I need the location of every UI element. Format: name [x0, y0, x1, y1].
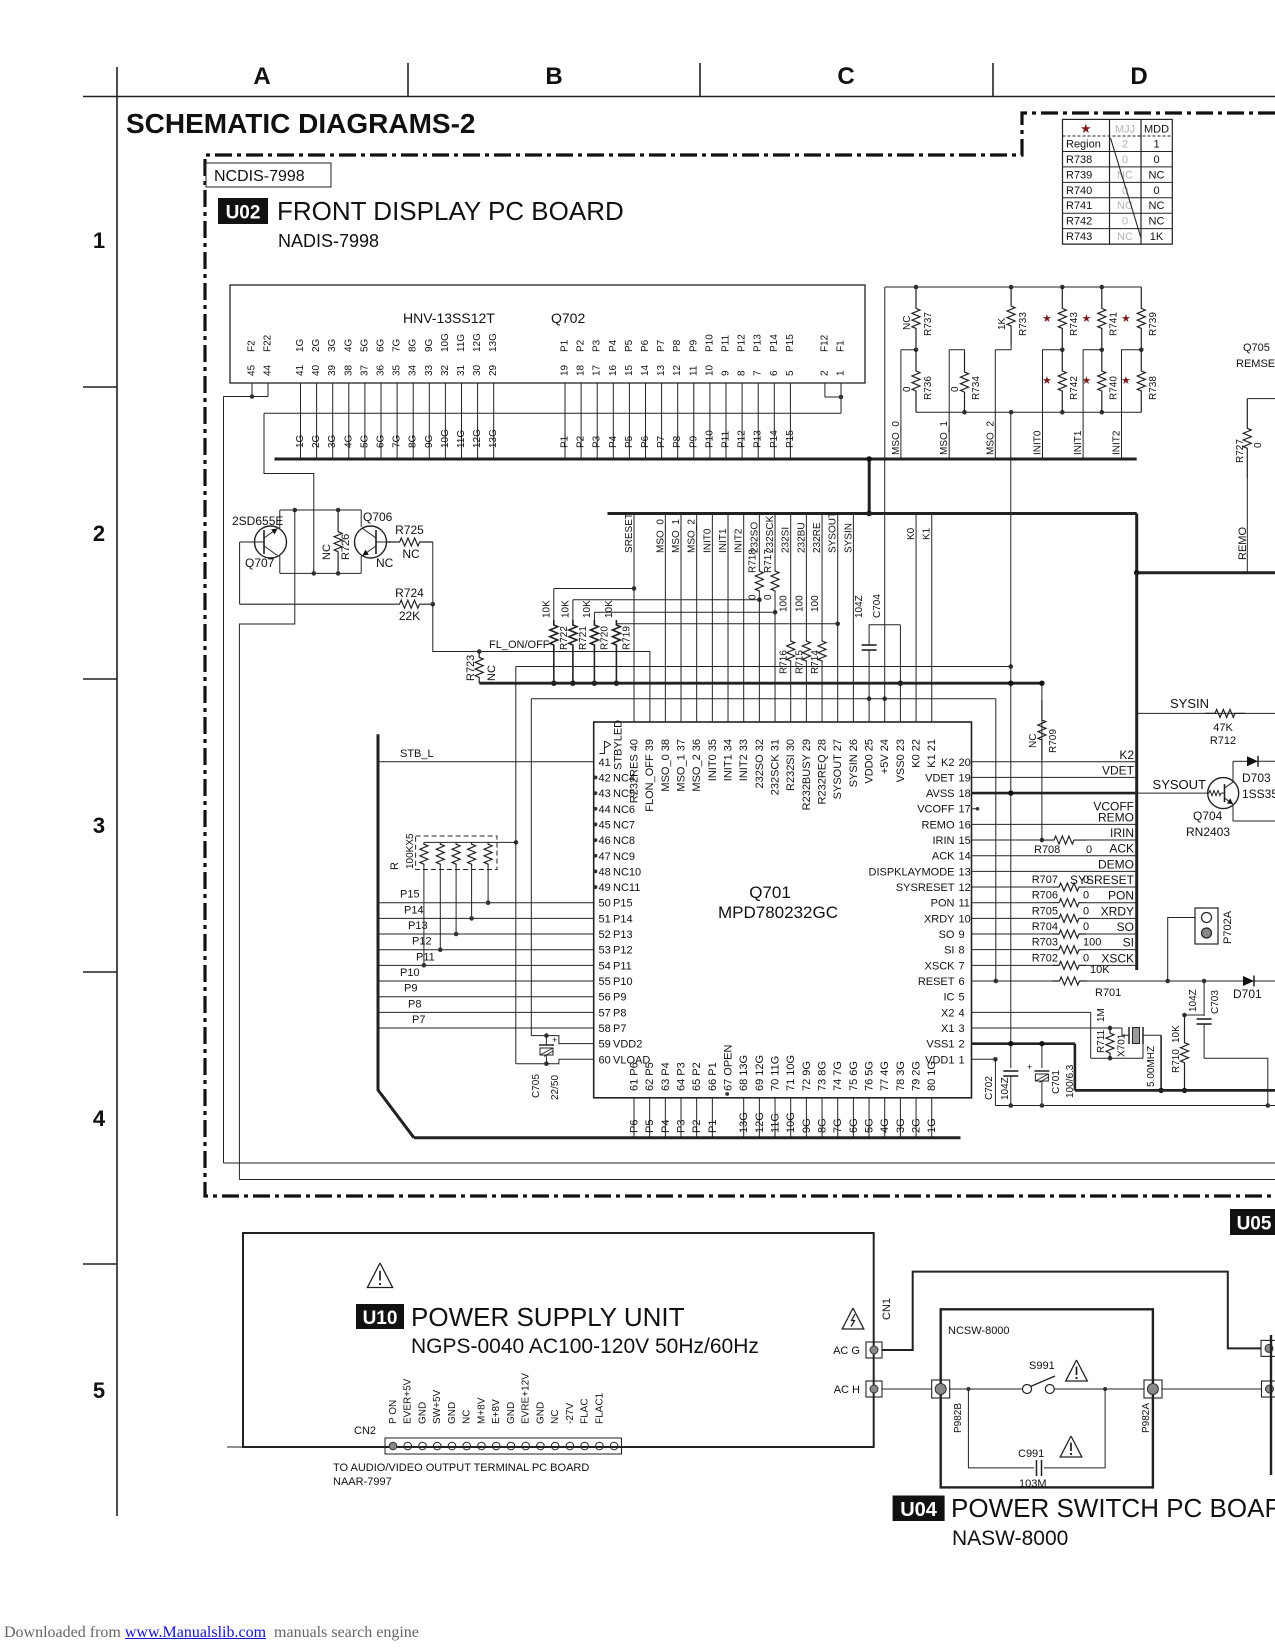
svg-text:15: 15: [959, 835, 971, 847]
svg-text:38: 38: [343, 364, 354, 376]
net label SYSIN and resistor R712 47K: [1137, 696, 1275, 747]
column tick B|C: [699, 63, 701, 97]
wire: F2 net long left drop: [223, 397, 225, 1164]
svg-text:13G: 13G: [488, 429, 499, 448]
capacitor C702 104Z: [984, 1044, 1018, 1108]
svg-text:FL_ON/OFF: FL_ON/OFF: [489, 639, 550, 651]
svg-text:INIT0 35: INIT0 35: [707, 739, 719, 781]
resistor R743 (star): [1042, 287, 1080, 352]
svg-text:-27V: -27V: [565, 1403, 576, 1424]
crystal X701 5.00MHZ with R711 1M: [972, 1008, 1164, 1093]
wire: VDET pin19 to bus: [972, 776, 1138, 778]
svg-text:6G: 6G: [376, 338, 387, 352]
warning triangle (CN1, lightning): [842, 1308, 864, 1329]
connector CN2 strip: [354, 1373, 622, 1454]
svg-text:SO: SO: [939, 929, 955, 941]
svg-text:R702: R702: [1032, 952, 1058, 964]
svg-text:FLAC: FLAC: [580, 1398, 591, 1424]
svg-text:1: 1: [93, 228, 105, 253]
svg-text:GND: GND: [506, 1402, 517, 1424]
svg-text:NC: NC: [1117, 169, 1133, 181]
svg-text:104Z: 104Z: [854, 595, 865, 618]
svg-text:P8: P8: [672, 435, 683, 448]
svg-text:ACK: ACK: [932, 851, 955, 863]
svg-text:U10: U10: [363, 1308, 398, 1329]
junction: C991 left: [966, 1387, 970, 1391]
svg-text:232SO 32: 232SO 32: [754, 739, 766, 789]
svg-text:7G: 7G: [832, 1118, 844, 1133]
svg-text:4: 4: [959, 1007, 965, 1019]
svg-text:49: 49: [599, 882, 611, 894]
svg-text:11G: 11G: [456, 430, 467, 448]
svg-text:P6: P6: [629, 1120, 641, 1133]
wire: REMO vertical to bus: [1246, 478, 1248, 573]
svg-text:54: 54: [599, 960, 611, 972]
svg-text:Q707: Q707: [245, 556, 275, 570]
svg-text:P14: P14: [613, 913, 633, 925]
svg-text:40: 40: [311, 364, 322, 376]
capacitor C701 100/6.3 electrolytic: [1027, 1044, 1076, 1108]
power supply unit U10 outline: [243, 1233, 874, 1447]
svg-text:53: 53: [599, 945, 611, 957]
svg-text:232SCK: 232SCK: [765, 515, 776, 553]
svg-text:0: 0: [1083, 890, 1089, 902]
svg-text:0: 0: [763, 594, 774, 600]
svg-text:67 OPEN: 67 OPEN: [723, 1044, 735, 1091]
svg-text:P7: P7: [412, 1014, 425, 1026]
IC Q701 pin67 OPEN dot: [725, 1092, 729, 1096]
junction: C991 right: [1103, 1387, 1107, 1391]
svg-text:4G: 4G: [343, 338, 354, 352]
svg-text:9G: 9G: [801, 1118, 813, 1133]
svg-text:69 12G: 69 12G: [754, 1055, 766, 1091]
svg-text:6G: 6G: [376, 434, 387, 448]
net label STB_L and wire: [378, 761, 594, 763]
svg-text:MSO_0: MSO_0: [655, 519, 666, 553]
svg-text:5.00MHZ: 5.00MHZ: [1146, 1046, 1157, 1087]
bus: right elbow of bus B down and right (REMO net): [1135, 514, 1138, 573]
svg-text:0: 0: [1122, 216, 1128, 228]
svg-text:5: 5: [785, 370, 796, 376]
svg-text:CN2: CN2: [354, 1425, 376, 1437]
svg-text:R742: R742: [1069, 376, 1080, 400]
svg-text:SYSRESET: SYSRESET: [1070, 873, 1135, 887]
wire: MSO_1 vertical: [948, 350, 950, 459]
wire: VSS1 pin2 thick ground route: [972, 1041, 1075, 1090]
wire: VDD bottom rail: [995, 1105, 1275, 1107]
svg-text:SCHEMATIC DIAGRAMS-2: SCHEMATIC DIAGRAMS-2: [126, 108, 475, 139]
svg-text:R736: R736: [923, 376, 934, 400]
svg-text:R716: R716: [779, 650, 790, 674]
svg-text:0: 0: [1253, 442, 1264, 448]
svg-text:52: 52: [599, 929, 611, 941]
svg-text:R717: R717: [763, 549, 774, 573]
svg-text:70 11G: 70 11G: [770, 1056, 782, 1091]
svg-text:1K: 1K: [1150, 231, 1164, 243]
svg-text:R721: R721: [578, 626, 589, 650]
svg-text:DEMO: DEMO: [1098, 857, 1134, 871]
column tick A|B: [407, 63, 409, 97]
terminal pad right (AC G, cut): [1261, 1340, 1275, 1356]
IC Q701 NC pin dots (42-49): [594, 776, 598, 889]
wires: IC bottom pins to ground bus D: [629, 1098, 939, 1138]
svg-text:0: 0: [1086, 844, 1092, 856]
svg-text:0: 0: [1153, 154, 1159, 166]
wire: VDD2 pin59 jog: [546, 1036, 593, 1044]
svg-text:VDD2: VDD2: [613, 1039, 642, 1051]
svg-text:45: 45: [599, 819, 611, 831]
svg-text:1K: 1K: [997, 317, 1008, 330]
svg-text:10K: 10K: [604, 600, 615, 618]
svg-text:78 3G: 78 3G: [895, 1061, 907, 1091]
svg-text:17: 17: [592, 364, 603, 376]
IC Q701 top pin labels: [629, 739, 939, 812]
warning triangle (S991): [1066, 1360, 1088, 1381]
diode D701: [1233, 976, 1262, 1002]
svg-text:R704: R704: [1032, 921, 1058, 933]
svg-text:R718: R718: [747, 549, 758, 573]
svg-text:232RE: 232RE: [812, 522, 823, 553]
svg-text:P4: P4: [608, 435, 619, 448]
bus: +5V horizontal bus A: [275, 458, 1137, 461]
junction: +5V at VDD rail: [882, 696, 887, 701]
block id U04: [893, 1496, 945, 1522]
svg-text:100: 100: [810, 595, 821, 612]
svg-text:P7: P7: [656, 339, 667, 352]
svg-text:P13: P13: [753, 334, 764, 352]
svg-text:P11: P11: [721, 335, 732, 352]
svg-text:R737: R737: [923, 312, 934, 336]
svg-text:F12: F12: [819, 334, 830, 352]
block id U02: [218, 198, 268, 224]
option table (star/MJJ/MDD): [1063, 119, 1173, 244]
svg-text:VDET: VDET: [925, 772, 955, 784]
svg-text:MSO_0: MSO_0: [891, 421, 902, 455]
wire: P982B to switch: [950, 1388, 1023, 1390]
svg-text:R743: R743: [1069, 312, 1080, 336]
wire: filament rail (F net): [264, 412, 841, 414]
svg-text:P13: P13: [753, 430, 764, 448]
svg-text:1: 1: [1153, 138, 1159, 150]
svg-text:R740: R740: [1066, 185, 1092, 197]
svg-text:46: 46: [599, 835, 611, 847]
resistor R722 10K pull-up: [541, 586, 636, 686]
svg-text:A: A: [253, 63, 270, 90]
resistor R716 100 (in 232SI line): [779, 595, 795, 674]
svg-text:XSCK: XSCK: [925, 960, 956, 972]
wire: VLOAD pin60 jog: [546, 1059, 593, 1063]
resistor R704 0 (in SO line): [972, 920, 1138, 938]
svg-text:SYSOUT: SYSOUT: [828, 512, 839, 553]
svg-text:P11: P11: [416, 951, 435, 963]
svg-text:P9: P9: [688, 435, 699, 448]
wire: AC H to P982B: [882, 1388, 932, 1390]
wire: C705 feed rail down (from rail 666): [515, 667, 517, 1064]
wire: thick link bus A to bus B: [868, 459, 871, 514]
resistor R703 100 (in SI line): [972, 936, 1138, 954]
svg-text:0: 0: [1083, 952, 1089, 964]
svg-text:VCOFF: VCOFF: [917, 804, 955, 816]
svg-text:VSS0 23: VSS0 23: [895, 739, 907, 782]
junction: emitter rail / filament: [312, 571, 317, 576]
wire: DEMO pin13 to bus: [972, 870, 1138, 872]
svg-text:VDET: VDET: [1102, 763, 1135, 777]
svg-text:R724: R724: [395, 586, 424, 600]
svg-text:RESET: RESET: [918, 976, 955, 988]
svg-text:INIT1: INIT1: [1073, 430, 1084, 455]
svg-text:P982A: P982A: [1141, 1403, 1152, 1433]
svg-text:8G: 8G: [817, 1118, 829, 1133]
svg-text:K2: K2: [1119, 748, 1134, 762]
wire: emitter rail of Q707/Q706: [280, 572, 361, 574]
svg-text:22K: 22K: [399, 609, 420, 623]
svg-text:F22: F22: [263, 334, 274, 352]
IC Q701 MPD780232GC body: [594, 722, 972, 1098]
svg-text:INIT2 33: INIT2 33: [738, 739, 750, 781]
svg-text:80 1G: 80 1G: [926, 1061, 938, 1091]
svg-text:2G: 2G: [311, 338, 322, 352]
svg-text:100KX5: 100KX5: [405, 833, 416, 869]
svg-text:64 P3: 64 P3: [676, 1062, 688, 1091]
svg-text:2G: 2G: [911, 1118, 923, 1133]
svg-text:AC G: AC G: [833, 1345, 860, 1357]
svg-text:2G: 2G: [311, 434, 322, 448]
svg-text:P8: P8: [613, 1007, 626, 1019]
svg-text:SYSRESET: SYSRESET: [896, 882, 955, 894]
svg-text:7: 7: [959, 960, 965, 972]
wire: INIT1 vertical: [1083, 350, 1102, 459]
resistor R709 NC (from ground bus to IRIN): [1028, 681, 1059, 841]
svg-text:3: 3: [959, 1023, 965, 1035]
svg-text:12G: 12G: [472, 429, 483, 448]
svg-text:X2: X2: [941, 1007, 954, 1019]
wire: Q707 base to R724: [239, 542, 241, 604]
svg-text:C702: C702: [984, 1076, 995, 1100]
wire: REMO pin16 to bus: [972, 823, 1138, 825]
svg-text:P5: P5: [624, 339, 635, 352]
svg-text:P1: P1: [560, 339, 571, 352]
wire: VDD rail (VDD0/+5V): [531, 698, 996, 700]
svg-text:SYSOUT 27: SYSOUT 27: [832, 739, 844, 799]
wire: VSS0 pin23 riser: [899, 625, 901, 722]
svg-text:73 8G: 73 8G: [817, 1061, 829, 1091]
svg-text:★: ★: [1080, 121, 1092, 136]
svg-text:F1: F1: [836, 340, 847, 352]
svg-text:P10: P10: [400, 967, 420, 979]
svg-text:U04: U04: [900, 1499, 938, 1521]
svg-text:4: 4: [93, 1106, 106, 1131]
power switch board NCSW-8000 outline: [941, 1309, 1153, 1487]
bus: right vertical signal bus: [1135, 573, 1138, 970]
svg-text:P12: P12: [613, 945, 633, 957]
svg-text:C701: C701: [1051, 1070, 1062, 1094]
svg-text:M+8V: M+8V: [476, 1397, 487, 1424]
svg-text:K1 21: K1 21: [926, 739, 938, 768]
svg-text:33: 33: [424, 364, 435, 376]
svg-text:Q701: Q701: [749, 883, 791, 902]
svg-text:P8: P8: [408, 998, 421, 1010]
svg-text:SYSIN 26: SYSIN 26: [848, 739, 860, 787]
svg-text:232SI: 232SI: [781, 527, 792, 553]
svg-text:R720: R720: [599, 626, 610, 650]
svg-text:MJJ: MJJ: [1115, 124, 1135, 136]
svg-text:9: 9: [959, 929, 965, 941]
svg-text:45: 45: [247, 364, 258, 376]
resistor R727 0: [1235, 399, 1275, 478]
svg-text:P13: P13: [613, 929, 633, 941]
svg-text:R723: R723: [465, 655, 477, 681]
diode D703 1SS355: [1233, 756, 1275, 801]
resistor R733 1K: [995, 287, 1029, 350]
resistor R737 NC: [901, 287, 934, 352]
svg-text:NC: NC: [462, 1410, 473, 1424]
svg-text:R708: R708: [1034, 844, 1060, 856]
svg-text:1SS35: 1SS35: [1242, 787, 1275, 801]
svg-text:5G: 5G: [359, 434, 370, 448]
svg-text:R705: R705: [1032, 905, 1058, 917]
svg-text:P ON: P ON: [388, 1400, 399, 1424]
svg-text:10G: 10G: [440, 333, 451, 352]
wire: K2 pin20 to bus: [972, 761, 1138, 763]
svg-text:P14: P14: [769, 334, 780, 352]
svg-text:IRIN: IRIN: [1110, 826, 1134, 840]
svg-text:R742: R742: [1066, 216, 1092, 228]
svg-text:71 10G: 71 10G: [785, 1055, 797, 1091]
resistor R714 100 (in 232RE line): [810, 595, 826, 674]
svg-text:9G: 9G: [424, 434, 435, 448]
wire: AC G routing over power switch: [882, 1272, 1261, 1350]
svg-text:6: 6: [769, 370, 780, 376]
junction: pin45 F2: [250, 394, 255, 399]
junction: pin1 F1: [839, 395, 844, 400]
svg-text:SW+5V: SW+5V: [432, 1389, 443, 1424]
resistor R717 0 (in 232SCK line): [763, 549, 779, 600]
svg-text:MSO_2: MSO_2: [985, 421, 996, 455]
svg-text:NC9: NC9: [613, 851, 635, 863]
svg-text:K0: K0: [906, 527, 917, 540]
wire: VDD1 pin1 net: [972, 1057, 998, 1106]
svg-text:SI: SI: [1123, 936, 1134, 950]
svg-text:NADIS-7998: NADIS-7998: [278, 231, 379, 251]
svg-text:77 4G: 77 4G: [879, 1061, 891, 1091]
svg-text:103M: 103M: [1019, 1478, 1047, 1490]
svg-text:NASW-8000: NASW-8000: [952, 1527, 1068, 1550]
svg-text:VSS1: VSS1: [926, 1039, 954, 1051]
svg-text:★: ★: [1042, 375, 1052, 387]
terminal pad right (AC H, cut): [1262, 1381, 1275, 1397]
svg-text:13G: 13G: [738, 1112, 750, 1133]
resistor R723 (NC): [465, 652, 498, 684]
svg-text:R734: R734: [971, 376, 982, 400]
svg-text:VDD0 25: VDD0 25: [864, 739, 876, 784]
svg-text:0: 0: [902, 386, 913, 392]
svg-text:9G: 9G: [424, 338, 435, 352]
svg-text:0: 0: [1083, 921, 1089, 933]
svg-text:NC5: NC5: [613, 788, 635, 800]
svg-text:P2: P2: [576, 435, 587, 448]
row tick 4|5: [83, 1263, 117, 1265]
wire: resistor network bottom rail: [916, 411, 1141, 413]
svg-text:0: 0: [950, 386, 961, 392]
bus: bottom right ground bus: [1075, 1089, 1275, 1092]
svg-text:P8: P8: [672, 339, 683, 352]
svg-text:76 5G: 76 5G: [864, 1061, 876, 1091]
svg-text:51: 51: [599, 913, 611, 925]
svg-text:P9: P9: [688, 339, 699, 352]
svg-text:IRIN: IRIN: [933, 835, 955, 847]
connector P982A: [1141, 1380, 1162, 1433]
svg-text:P5: P5: [624, 435, 635, 448]
svg-text:100: 100: [779, 595, 790, 612]
connector P702A: [1168, 908, 1234, 981]
svg-text:P2: P2: [576, 339, 587, 352]
svg-text:P12: P12: [737, 430, 748, 448]
svg-text:POWER SUPPLY UNIT: POWER SUPPLY UNIT: [411, 1302, 685, 1332]
svg-text:R722: R722: [559, 626, 570, 650]
junction: FL_ON/OFF at R723: [477, 649, 482, 654]
warning triangle (U10): [367, 1263, 392, 1288]
page frame: left ruler line: [116, 67, 118, 1516]
svg-text:48: 48: [599, 866, 611, 878]
resistor R715 100 (in 232BU line): [794, 595, 810, 674]
svg-text:NC: NC: [321, 544, 333, 560]
svg-text:100/6.3: 100/6.3: [1065, 1064, 1076, 1098]
svg-text:P3: P3: [676, 1120, 688, 1133]
svg-text:P14: P14: [404, 904, 424, 916]
svg-text:NC: NC: [376, 556, 394, 570]
svg-text:C: C: [837, 63, 854, 90]
svg-text:Q702: Q702: [551, 310, 585, 326]
svg-text:NC6: NC6: [613, 804, 635, 816]
svg-text:14: 14: [640, 364, 651, 376]
svg-text:R739: R739: [1066, 169, 1092, 181]
wire: IRIN pin15 through R708: [972, 826, 1138, 856]
svg-text:1G: 1G: [295, 434, 306, 448]
svg-text:NC: NC: [486, 665, 498, 681]
svg-text:★: ★: [1121, 375, 1131, 387]
wire: MSO_2 vertical: [994, 350, 996, 459]
resistor R707 0 (in SYSRESET line): [972, 873, 1138, 891]
svg-text:HNV-13SS12T: HNV-13SS12T: [403, 310, 495, 326]
svg-text:P6: P6: [640, 339, 651, 352]
svg-text:S991: S991: [1029, 1360, 1055, 1372]
svg-text:14: 14: [959, 851, 971, 863]
wire: VDD rail drop to R701: [995, 699, 997, 981]
svg-text:18: 18: [576, 364, 587, 376]
resistor R738 (star): [1121, 350, 1159, 412]
svg-text:MDD: MDD: [1144, 124, 1169, 136]
svg-text:MSO_1 37: MSO_1 37: [676, 739, 688, 792]
svg-text:B: B: [545, 63, 562, 90]
svg-text:1: 1: [959, 1054, 965, 1066]
block id U05 (cut at page edge): [1230, 1209, 1275, 1235]
svg-text:R740: R740: [1109, 376, 1120, 400]
svg-text:NC: NC: [902, 316, 913, 330]
svg-text:0: 0: [1122, 154, 1128, 166]
bus: signal bus B: [608, 512, 1137, 515]
svg-text:12: 12: [959, 882, 971, 894]
svg-text:50: 50: [599, 898, 611, 910]
svg-text:REMO: REMO: [1098, 810, 1134, 824]
svg-text:NAAR-7997: NAAR-7997: [333, 1476, 392, 1488]
svg-text:4G: 4G: [879, 1118, 891, 1133]
svg-text:10: 10: [704, 364, 715, 376]
svg-text:NC10: NC10: [613, 866, 641, 878]
svg-text:R703: R703: [1032, 937, 1058, 949]
svg-text:41: 41: [599, 757, 611, 769]
svg-text:FLON_OFF 39: FLON_OFF 39: [644, 739, 656, 812]
svg-text:NC: NC: [550, 1410, 561, 1424]
